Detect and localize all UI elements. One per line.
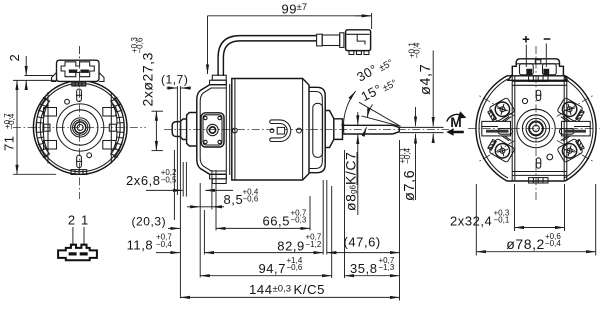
dimension 2x27,3: extension line bottom — [152, 150, 164, 152]
svg-text:(20,3): (20,3) — [132, 215, 167, 229]
right view: vertical centerline — [535, 46, 537, 202]
svg-text:−0,4: −0,4 — [7, 113, 16, 129]
right view: hub bearing ring1 — [533, 125, 540, 132]
right view: radial centerline lower left — [479, 140, 515, 161]
left view: end cap emboss circle — [57, 104, 104, 151]
middle view: right bearing boss — [325, 111, 334, 148]
right view: radial centerline upper left — [479, 95, 515, 116]
left view: top mounting tab under connector — [72, 82, 86, 86]
left view: left brush box upper — [44, 108, 57, 117]
cable: connector bottom tab 2 — [357, 51, 362, 55]
svg-text:−0,4: −0,4 — [413, 42, 422, 58]
dimension 2: extension line from connector ledge — [25, 75, 55, 77]
svg-text:66,5: 66,5 — [263, 214, 291, 229]
left view: pole housing right flat chord — [110, 92, 112, 164]
right view: small hole upper left — [522, 98, 527, 103]
svg-text:−0,4: −0,4 — [545, 239, 561, 248]
middle view: spring clip strip outer stroke — [272, 122, 290, 140]
svg-text:−1,2: −1,2 — [306, 240, 322, 249]
right view: terminal connector inner top line — [516, 63, 559, 65]
middle view: plate center hole inner (thick) — [209, 127, 215, 133]
middle view: shaft bottom line — [343, 133, 393, 135]
dimension dia8: lower arrow and line down — [357, 135, 359, 216]
dimension 2x32,4: right extension line — [564, 184, 566, 231]
extension line: cap right x=323.2 — [322, 180, 324, 255]
extension line: x=216 — [215, 170, 217, 231]
left view: vertical centerline — [79, 46, 81, 199]
middle view: spring clip strip inner white — [272, 122, 290, 140]
dimension dia8: K/C7 underline — [356, 152, 358, 185]
right view: terminal pin left (dark) — [526, 69, 532, 75]
polarity minus symbol — [544, 38, 551, 40]
right view: bottom vent slot — [536, 158, 542, 168]
middle view: small hole on centerline left — [232, 128, 237, 133]
svg-text:(1,7): (1,7) — [161, 72, 188, 86]
dimension dia4,7: lower arrow — [432, 134, 434, 142]
right view: left pole band outline — [482, 116, 513, 141]
extension line: cap face x=326.8 — [326, 180, 328, 255]
left view: connector inner stepped profile — [61, 62, 94, 77]
dimension 35,8: dimension line with arrows — [345, 275, 400, 277]
middle view: spring clip middle tongue — [277, 127, 284, 134]
left view: right brush box lower — [103, 141, 116, 150]
dimension 8,5: connecting line — [200, 206, 212, 208]
middle view: end cap right inner contour — [309, 92, 322, 169]
right view: horizontal centerline — [468, 127, 600, 129]
left view: outer housing circle — [33, 81, 127, 175]
right view: terminal well left — [520, 64, 534, 75]
dimension 11,8: leader with arrow — [156, 252, 180, 254]
left view: inner housing circle — [36, 83, 124, 171]
left view: hub bearing circle ring3 — [73, 120, 88, 135]
cable: left outer line rising from motor — [218, 36, 317, 76]
pin detail: terminal blade 1 (dark) — [80, 252, 88, 255]
dimension 66,5: dimension line with arrows — [216, 227, 310, 229]
dimension 71: extension line top — [13, 79, 58, 81]
middle view: end cap inner wall line — [200, 88, 226, 171]
cable: boot collar ring — [340, 33, 344, 48]
left view: brush ring left segmented arcs — [37, 98, 50, 158]
svg-text:35,8: 35,8 — [350, 261, 378, 276]
svg-text:82,9: 82,9 — [277, 238, 305, 253]
svg-text:±5°: ±5° — [377, 57, 395, 74]
svg-text:−0,3: −0,3 — [291, 216, 307, 225]
middle view: horizontal centerline — [164, 129, 449, 131]
right view: bottom crimp tab — [529, 178, 548, 183]
left view: small hole lower right — [87, 153, 92, 158]
right view: brush unit upper left — [486, 97, 515, 123]
dimension 30deg: angle ray — [359, 102, 401, 126]
dimension 8,5: left tail and arrow — [187, 206, 200, 208]
svg-text:2: 2 — [7, 54, 22, 62]
extension line: nub left face — [173, 150, 175, 220]
svg-text:±5°: ±5° — [381, 78, 399, 94]
dimension 71: dimension line with arrows — [16, 80, 18, 174]
dimension 2x27,3: dimension line with arrows — [155, 111, 157, 150]
middle view: top crimp tab small block — [212, 75, 226, 80]
left view: bottom crimp tab — [71, 170, 87, 175]
svg-text:±0,3: ±0,3 — [273, 283, 292, 294]
dimension (47,6): dimension line with arrows — [327, 252, 400, 254]
svg-text:±7: ±7 — [297, 2, 308, 13]
svg-text:2x6,8: 2x6,8 — [126, 173, 161, 188]
extension line: x=211.9 — [211, 170, 213, 210]
left view: right brush box upper — [103, 108, 116, 117]
dimension 2: lower arrow pointing up — [25, 80, 27, 86]
left view: small hole upper left — [65, 99, 70, 104]
middle view: shaft taper and tip — [393, 125, 400, 134]
right view: terminal connector outer box — [508, 59, 568, 81]
middle view: shaft end thrust nub — [172, 122, 180, 137]
right view: radial centerline lower right — [557, 140, 593, 161]
middle view: housing left rim line — [234, 79, 236, 181]
svg-text:2xø27,3: 2xø27,3 — [140, 52, 156, 106]
dimension 94,7: dimension line with arrows — [200, 275, 332, 277]
left view: connector housing outline — [57, 60, 100, 81]
left view: pole housing left flat chord — [47, 92, 49, 164]
dimension 15deg: arc lower part with arrow — [363, 127, 366, 134]
middle view: bearing boss step 1 — [181, 119, 187, 140]
middle view: mounting plate with rounded corners — [201, 113, 224, 147]
dimension (20,3): leader with arrow — [168, 227, 180, 229]
rotation symbol: curved arrow arc — [447, 114, 463, 121]
svg-text:144: 144 — [249, 282, 273, 297]
left view: vertical centerline over connector — [79, 46, 81, 84]
dimension 15deg: arc upper part with arrow — [367, 105, 372, 118]
dimension 2x27,3: extension line top — [152, 110, 164, 112]
left view: connector pin slot 2 (dark) — [80, 70, 89, 73]
right view: radial centerline upper right — [557, 95, 593, 116]
svg-text:M: M — [450, 115, 462, 130]
svg-text:94,7: 94,7 — [259, 261, 287, 276]
right view: right pole band outline — [559, 116, 590, 141]
left view: hub bearing circle ring1 — [77, 125, 83, 131]
svg-text:2: 2 — [68, 212, 76, 227]
pin detail: leader line pin 2 — [72, 227, 74, 246]
extension line: crimp tab pair right — [185, 162, 187, 197]
right view: bottom band horizontal lines — [512, 172, 567, 176]
dimension (1,7): left arrow — [167, 87, 177, 89]
right view: terminal pin right (dark) — [543, 69, 549, 75]
dimension 99: left leader with down arrow — [207, 16, 209, 74]
extension line: plate left face x=200 — [199, 183, 201, 278]
left view: left brush box lower — [44, 141, 57, 150]
middle view: right boss small step — [334, 119, 343, 140]
dimension dia4,7: vertical leader line — [432, 51, 434, 127]
svg-text:11,8: 11,8 — [127, 238, 154, 253]
left view: brush ring right segmented arcs — [110, 98, 123, 158]
svg-text:K/C5: K/C5 — [294, 282, 326, 297]
cable: rubber boot body — [322, 35, 340, 46]
dimension dia78,2: left extension line — [475, 184, 477, 256]
svg-text:−0,6: −0,6 — [243, 194, 259, 203]
dimension dia7,6: upper arrow — [415, 107, 417, 126]
middle view: thin shaft extension bottom line — [399, 132, 443, 134]
dimension 2: upper arrow pointing down — [25, 56, 27, 76]
right view: left spring arm dark stripe — [486, 130, 509, 133]
right view: brush unit lower left — [486, 137, 515, 163]
cable: connector bottom tab 1 — [349, 51, 354, 55]
svg-text:ø7,6: ø7,6 — [402, 170, 418, 201]
right view: right spring arm dark stripe — [564, 130, 587, 133]
svg-text:71: 71 — [2, 135, 17, 151]
right view: top mounting tab — [529, 76, 548, 81]
cable: connector inner top line — [347, 33, 370, 35]
svg-text:−0,1: −0,1 — [494, 215, 510, 224]
middle view: bottom crimp tab small block — [212, 179, 226, 184]
svg-text:2x32,4: 2x32,4 — [450, 213, 492, 228]
extension line: crimp tab pair left — [182, 162, 184, 197]
extension line: shaft tip x=399.5 — [399, 140, 401, 301]
middle view: end cap left outline — [197, 85, 227, 175]
dimension 82,9: dimension line with arrows — [204, 252, 323, 254]
right view: hub bearing ring4 — [522, 115, 549, 142]
svg-text:−1,3: −1,3 — [379, 263, 395, 272]
middle view: bearing boss step 2 — [187, 113, 197, 147]
middle view: plate corner hole top left — [204, 116, 207, 119]
left view: connector right latch wing — [99, 73, 104, 82]
middle view: thin shaft extension top line — [399, 126, 443, 128]
middle view: end cap right boundary lines — [226, 80, 229, 178]
right view: terminal well right — [543, 64, 557, 75]
svg-text:−0,4: −0,4 — [156, 240, 172, 249]
left view: bearing boss circle dia 27.3 — [62, 110, 97, 145]
right view: hub boss circle — [517, 109, 555, 147]
middle view: plate corner hole top right — [218, 116, 221, 119]
middle view: end cap right outer contour — [309, 87, 325, 172]
dimension 30deg: arc with arrows — [343, 91, 355, 133]
left view: connector pin slot 1 (dark) — [69, 70, 78, 73]
dimension (1,7): right extension line / datum face — [179, 86, 181, 298]
polarity plus leader line — [525, 45, 527, 68]
middle view: top crimp tab flange — [210, 80, 227, 85]
pin detail: terminal blade 2 (dark) — [69, 252, 77, 255]
right view: inner housing circle — [479, 79, 593, 178]
right view: magnet band right double lines — [564, 76, 567, 181]
right view: top vent slot — [536, 90, 542, 100]
polarity plus symbol — [523, 36, 530, 43]
svg-text:−0,4: −0,4 — [403, 148, 412, 164]
middle view: small hole on centerline right — [297, 128, 302, 133]
left view: hub bearing circle ring2 — [75, 122, 86, 133]
left view: right chord small tab — [109, 124, 116, 131]
middle view: housing right seam line — [302, 79, 304, 181]
extension line: boss right x=331.7 — [331, 186, 333, 278]
dimension dia78,2: right extension line — [595, 184, 597, 256]
middle view: pole housing body outline with chamfered right corners — [232, 79, 309, 181]
middle view: plate corner hole bottom right — [218, 140, 221, 143]
cable: connector bottom tab 3 — [364, 51, 369, 55]
middle view: plate center hole outer — [207, 124, 218, 135]
middle view: shaft top line — [343, 124, 393, 126]
right view: top band horizontal lines — [512, 81, 567, 85]
svg-text:99: 99 — [282, 2, 298, 17]
dimension 2x6,8: leader line left with arrow — [146, 189, 183, 191]
dimension 144: dimension line with arrows — [180, 296, 399, 298]
left view: bottom vent slot — [76, 155, 82, 168]
cable: rubber boot step — [317, 34, 323, 46]
dimension dia8: upper arrow — [357, 112, 359, 125]
dimension 2x32,4: dimension line with arrows — [515, 227, 565, 229]
extension line: shaft start x=344.5 — [344, 150, 346, 278]
dimension 2x32,4: left extension line — [514, 184, 516, 231]
svg-text:ø78,2: ø78,2 — [506, 236, 545, 252]
middle view: bottom crimp tab flange — [210, 174, 227, 179]
right view: connector center key rect — [535, 60, 541, 64]
right view: hub bearing ring3 — [526, 118, 546, 138]
left view: horizontal centerline — [13, 127, 146, 129]
svg-text:−0,6: −0,6 — [135, 37, 144, 53]
right view: hub bearing ring2 thick — [529, 121, 543, 135]
right view: small hole lower right — [547, 154, 553, 160]
extension line: x=204.4 — [203, 210, 205, 255]
pin detail: leader line pin 1 — [83, 227, 85, 246]
cable: right inner line rising from motor — [223, 41, 316, 76]
middle view: spring clip pivot hole — [270, 129, 274, 133]
rotation symbol: bold left arrow — [446, 128, 464, 136]
left view: top vent slot — [76, 89, 82, 102]
dimension 71: extension line bottom — [13, 173, 56, 175]
dimension 15deg: angle ray — [362, 116, 401, 126]
middle view: plate corner hole bottom left — [204, 140, 207, 143]
middle view: end cap right inner stadium — [313, 103, 323, 157]
right view: brush unit upper right — [557, 97, 586, 123]
right view: outer housing circle with top and bottom flats — [476, 76, 596, 181]
cable: connector housing body — [346, 30, 371, 51]
svg-text:8,5: 8,5 — [224, 192, 244, 207]
left view: left chord small tab — [43, 124, 50, 131]
dimension 8,5: right tail and arrow — [212, 206, 224, 208]
left view: hub bearing circle ring4 — [71, 118, 90, 137]
dimension (1,7): right arrow — [181, 87, 191, 89]
pin detail: connector body outline (bold) — [58, 245, 97, 261]
svg-text:1: 1 — [81, 212, 89, 227]
dimension (1,7): left extension line — [176, 86, 178, 195]
dimension 2x6,8: leader line right with arrow — [205, 189, 233, 191]
cable: connector latch step — [357, 34, 365, 44]
svg-text:−0,6: −0,6 — [287, 263, 303, 272]
right view: brush unit lower right — [557, 137, 586, 163]
left view: connector left latch wing — [52, 73, 57, 82]
rotation symbol: curved arrow head — [458, 111, 467, 118]
right view: magnet band left double lines — [512, 76, 515, 181]
dimension dia78,2: dimension line with arrows — [476, 251, 595, 253]
dimension dia7,6: lower arrow and line down — [415, 134, 417, 200]
svg-text:(47,6): (47,6) — [344, 235, 381, 250]
extension line: body right x=310 — [309, 196, 311, 231]
dimension 99: horizontal dimension line — [208, 15, 372, 17]
dimension 99: right arrow — [355, 15, 371, 17]
svg-text:ø4,7: ø4,7 — [418, 64, 434, 95]
dimension 99: right extension line — [371, 13, 373, 29]
middle view: mounting plate inner line — [203, 115, 222, 145]
polarity minus leader line — [545, 44, 547, 68]
